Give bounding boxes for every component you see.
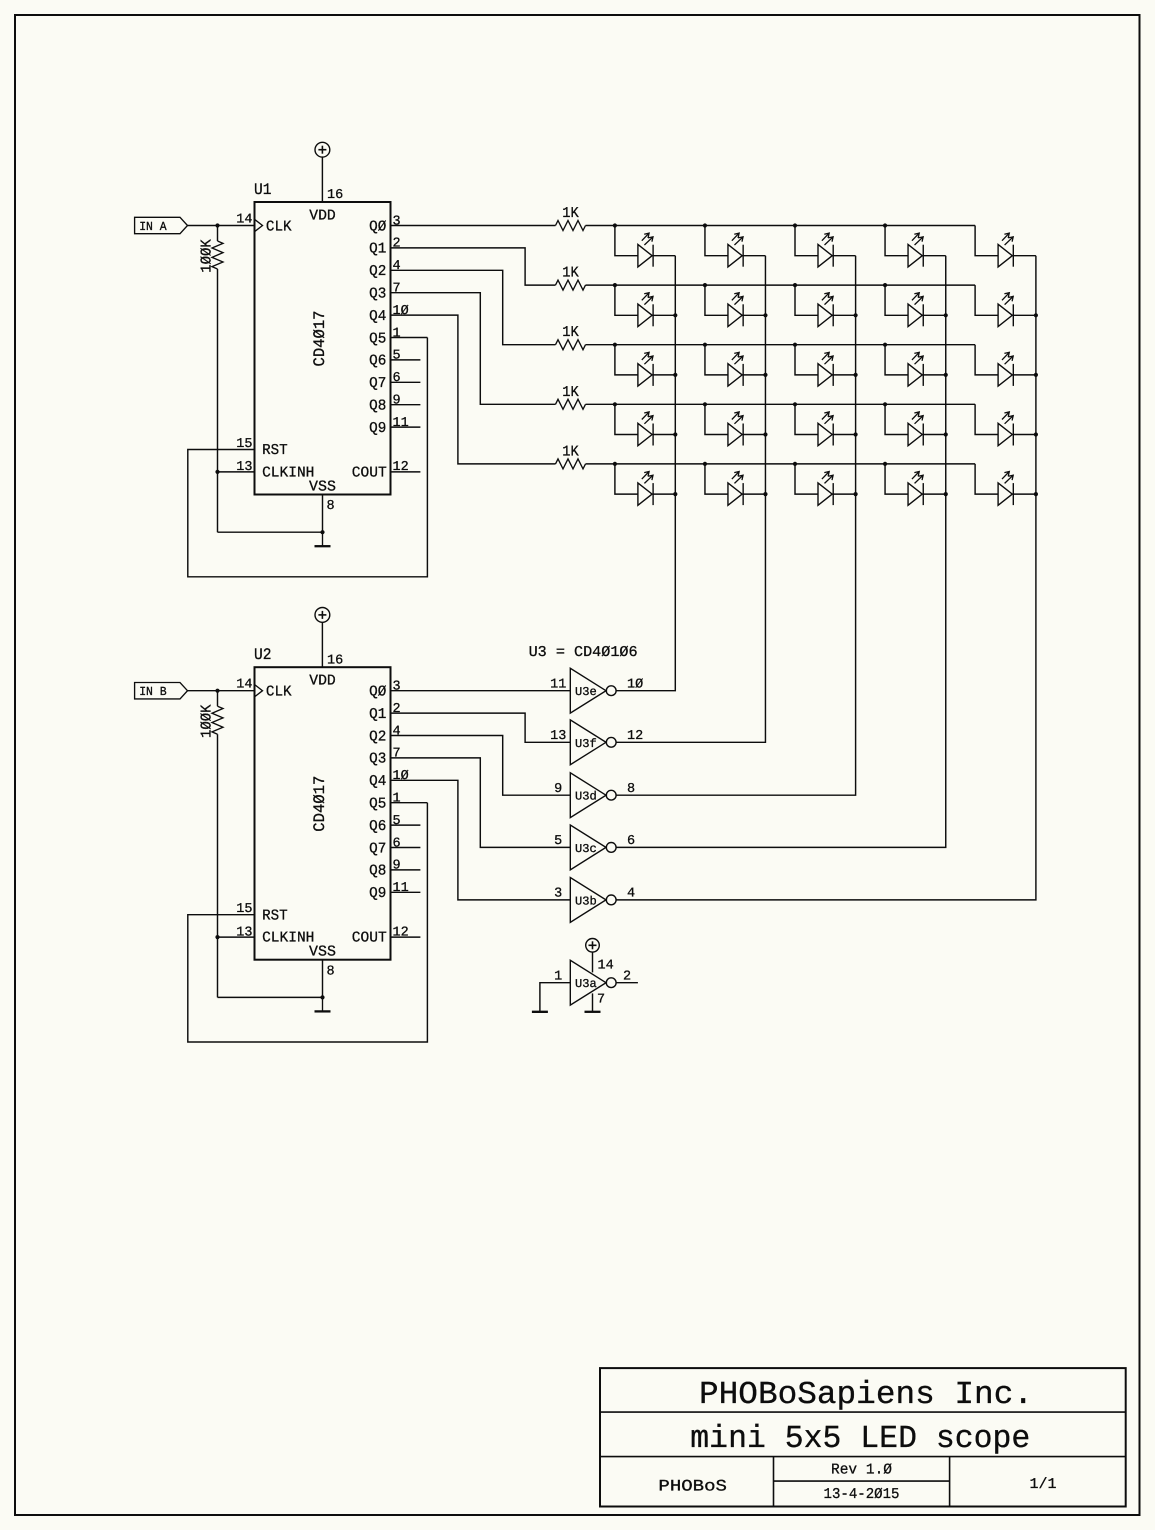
U3 pin 7 VSS wire xyxy=(593,992,606,1012)
junction cathode col 5 row 2 xyxy=(1034,313,1038,317)
wire U1 pin 4 Q2 to row 3 xyxy=(391,259,556,345)
title block xyxy=(600,1368,1126,1506)
svg-text:1Ø: 1Ø xyxy=(393,769,409,784)
wire IN B to U2 CLK pin 14 xyxy=(188,678,255,693)
svg-text:Q4: Q4 xyxy=(369,773,386,790)
junction cathode col 5 row 3 xyxy=(1034,373,1038,377)
svg-text:Q2: Q2 xyxy=(369,728,386,745)
svg-text:Q7: Q7 xyxy=(369,840,386,857)
svg-text:CLK: CLK xyxy=(266,684,292,701)
LED R5C2 xyxy=(728,472,743,506)
wire LED R1C2 anode xyxy=(705,226,728,256)
ground symbol U3a input xyxy=(532,1011,548,1013)
svg-text:6: 6 xyxy=(393,371,401,386)
wire LED R3C1 anode xyxy=(615,345,638,375)
svg-text:CLKINH: CLKINH xyxy=(262,930,314,947)
LED R2C5 xyxy=(998,293,1013,327)
svg-text:Q9: Q9 xyxy=(369,885,386,902)
wire cathode column 2 to U3 output xyxy=(616,256,765,743)
junction row 2 col 2 anode xyxy=(703,283,707,287)
svg-text:16: 16 xyxy=(327,653,343,668)
U2 pin 12 COUT stub xyxy=(391,925,421,940)
inverter U3a (CD40106 spare) xyxy=(570,960,616,1005)
wire LED R3C2 anode xyxy=(705,345,728,375)
junction cathode col 5 row 4 xyxy=(1034,432,1038,436)
svg-text:Q1: Q1 xyxy=(369,706,386,723)
LED R5C3 xyxy=(818,472,833,506)
wire LED R3C2 cathode xyxy=(743,374,765,376)
svg-text:1/1: 1/1 xyxy=(1030,1476,1057,1493)
junction row 5 col 3 anode xyxy=(793,462,797,466)
wire U2 pin 3 Q0 to U3e xyxy=(391,680,571,695)
wire LED R3C4 anode xyxy=(885,345,908,375)
wire IN A to U1 CLK pin 14 xyxy=(188,212,255,227)
svg-text:14: 14 xyxy=(598,959,614,974)
svg-text:PHOBoS: PHOBoS xyxy=(658,1477,727,1495)
wire U2 pin 2 Q1 to U3f xyxy=(391,702,571,742)
svg-text:6: 6 xyxy=(393,836,401,851)
wire LED R5C4 cathode xyxy=(923,493,946,495)
wire LED R4C2 anode xyxy=(705,404,728,434)
junction CLKINH tap xyxy=(215,470,219,474)
wire LED R1C4 cathode xyxy=(923,255,946,257)
svg-text:2: 2 xyxy=(393,237,401,252)
resistor 1K row 3 xyxy=(556,324,586,350)
wire LED R4C4 cathode xyxy=(923,434,946,436)
U2 pin 15 RST wire xyxy=(188,803,428,1042)
junction VSS/ground xyxy=(320,995,324,999)
wire LED R1C5 anode xyxy=(975,226,998,256)
svg-text:mini 5x5 LED scope: mini 5x5 LED scope xyxy=(690,1420,1030,1457)
wire LED R3C4 cathode xyxy=(923,374,946,376)
inverter U3e (CD40106) xyxy=(550,668,643,713)
LED R4C5 xyxy=(998,412,1013,446)
svg-text:2: 2 xyxy=(623,969,631,984)
svg-text:16: 16 xyxy=(327,188,343,203)
svg-text:U3 = CD4Ø1Ø6: U3 = CD4Ø1Ø6 xyxy=(529,644,638,661)
junction cathode col 4 row 5 xyxy=(944,492,948,496)
wire LED R2C2 anode xyxy=(705,285,728,315)
svg-text:1K: 1K xyxy=(562,384,579,401)
svg-text:1K: 1K xyxy=(562,324,579,341)
svg-text:15: 15 xyxy=(236,902,252,917)
junction VSS/ground xyxy=(320,530,324,534)
U2 pin 13 CLKINH wire xyxy=(218,925,255,940)
power +V symbol U2 VDD xyxy=(315,608,330,623)
LED R4C3 xyxy=(818,412,833,446)
wire 100K to CLKINH/ground xyxy=(217,734,219,997)
svg-text:U3e: U3e xyxy=(575,685,597,699)
IC U1 CD4017 xyxy=(254,181,391,495)
junction cathode col 4 row 3 xyxy=(944,373,948,377)
inverter U3c (CD40106) xyxy=(554,825,635,870)
svg-text:12: 12 xyxy=(393,460,409,475)
svg-text:7: 7 xyxy=(393,747,401,762)
wire LED R1C3 anode xyxy=(795,226,818,256)
U1 pin 6 Q7 stub xyxy=(391,371,421,386)
svg-text:RST: RST xyxy=(262,907,288,924)
svg-text:14: 14 xyxy=(236,678,252,693)
junction row 4 col 1 anode xyxy=(613,402,617,406)
junction CLKINH tap xyxy=(215,935,219,939)
svg-text:5: 5 xyxy=(554,834,562,849)
junction cathode col 5 row 5 xyxy=(1034,492,1038,496)
svg-text:Q8: Q8 xyxy=(369,398,386,415)
svg-text:4: 4 xyxy=(393,724,401,739)
LED R1C2 xyxy=(728,233,743,267)
svg-text:Q4: Q4 xyxy=(369,308,386,325)
svg-text:PHOBoSapiens Inc.: PHOBoSapiens Inc. xyxy=(699,1376,1033,1413)
label U3 = CD40106 xyxy=(529,644,638,661)
LED R4C4 xyxy=(908,412,923,446)
resistor 1K row 4 xyxy=(556,384,586,410)
junction row 4 col 3 anode xyxy=(793,402,797,406)
svg-text:U1: U1 xyxy=(254,181,272,199)
svg-text:1K: 1K xyxy=(562,443,579,460)
svg-text:Q3: Q3 xyxy=(369,751,386,768)
svg-text:1: 1 xyxy=(393,792,401,807)
wire LED R1C2 cathode xyxy=(743,255,765,257)
wire LED R4C5 cathode xyxy=(1013,434,1036,436)
inverter U3b (CD40106) xyxy=(554,878,635,923)
resistor 1K row 5 xyxy=(556,443,586,469)
svg-text:QØ: QØ xyxy=(369,218,386,235)
wire LED R1C4 anode xyxy=(885,226,908,256)
junction row 3 col 4 anode xyxy=(883,343,887,347)
U2 pin 6 Q7 stub xyxy=(391,836,421,851)
svg-text:1K: 1K xyxy=(562,265,579,282)
svg-text:13: 13 xyxy=(236,460,252,475)
LED R4C1 xyxy=(638,412,653,446)
junction cathode col 2 row 2 xyxy=(763,313,767,317)
wire U1 pin 7 Q3 to row 4 xyxy=(391,282,556,405)
junction row 1 col 1 anode xyxy=(613,223,617,227)
svg-text:U3f: U3f xyxy=(575,737,597,751)
wire LED R3C3 anode xyxy=(795,345,818,375)
svg-text:8: 8 xyxy=(627,782,635,797)
ground symbol U1 VSS xyxy=(315,532,331,546)
svg-text:Q3: Q3 xyxy=(369,286,386,303)
junction cathode col 1 row 5 xyxy=(673,492,677,496)
svg-text:9: 9 xyxy=(393,859,401,874)
U2 pin 16 VDD wire xyxy=(322,623,343,669)
wire LED R5C2 anode xyxy=(705,464,728,494)
power +V symbol U1 VDD xyxy=(315,142,330,157)
svg-text:CD4Ø17: CD4Ø17 xyxy=(311,776,329,832)
junction row 1 col 2 anode xyxy=(703,223,707,227)
wire LED R4C2 cathode xyxy=(743,434,765,436)
wire U1 pin 10 Q4 to row 5 xyxy=(391,304,556,464)
junction row 2 col 3 anode xyxy=(793,283,797,287)
junction IN B/100K xyxy=(215,689,219,693)
wire cathode column 5 to U3 output xyxy=(616,256,1036,900)
svg-text:U2: U2 xyxy=(254,646,272,664)
svg-text:1ØØK: 1ØØK xyxy=(198,704,215,738)
wire LED R2C1 cathode xyxy=(653,314,675,316)
wire LED R1C1 anode xyxy=(615,226,638,256)
U1 pin 12 COUT stub xyxy=(391,460,421,475)
svg-text:QØ: QØ xyxy=(369,684,386,701)
svg-text:VDD: VDD xyxy=(309,208,336,225)
wire 100K to CLKINH/ground xyxy=(217,269,219,532)
svg-text:1: 1 xyxy=(393,326,401,341)
wire LED R2C2 cathode xyxy=(743,314,765,316)
U3a pin 2 output stub xyxy=(616,969,638,984)
LED R3C2 xyxy=(728,352,743,386)
svg-text:13: 13 xyxy=(550,729,566,744)
svg-text:COUT: COUT xyxy=(352,465,387,482)
svg-text:6: 6 xyxy=(627,834,635,849)
wire cathode column 3 to U3 output xyxy=(616,256,856,796)
resistor 100K (U2 clock pulldown) xyxy=(198,691,223,738)
junction row 4 col 4 anode xyxy=(883,402,887,406)
U1 pin 9 Q8 stub xyxy=(391,394,421,409)
svg-text:U3c: U3c xyxy=(575,842,597,856)
junction row 5 col 2 anode xyxy=(703,462,707,466)
svg-text:3: 3 xyxy=(554,887,562,902)
wire LED R1C3 cathode xyxy=(833,255,855,257)
LED R4C2 xyxy=(728,412,743,446)
junction cathode col 4 row 2 xyxy=(944,313,948,317)
wire LED R4C3 cathode xyxy=(833,434,855,436)
svg-text:14: 14 xyxy=(236,212,252,227)
svg-text:4: 4 xyxy=(393,259,401,274)
svg-text:8: 8 xyxy=(327,499,335,514)
wire LED R3C5 anode xyxy=(975,345,998,375)
svg-text:9: 9 xyxy=(554,782,562,797)
wire LED R4C1 anode xyxy=(615,404,638,434)
wire LED R4C4 anode xyxy=(885,404,908,434)
wire cathode column 4 to U3 output xyxy=(616,256,946,848)
LED R5C1 xyxy=(638,472,653,506)
wire LED R5C5 anode xyxy=(975,464,998,494)
LED R2C2 xyxy=(728,293,743,327)
wire LED R2C5 cathode xyxy=(1013,314,1036,316)
U2 pin 8 VSS wire xyxy=(323,960,335,998)
junction cathode col 2 row 3 xyxy=(763,373,767,377)
U2 pin 9 Q8 stub xyxy=(391,859,421,874)
U1 pin 1 Q5 wire xyxy=(391,326,428,341)
svg-text:COUT: COUT xyxy=(352,930,387,947)
junction row 1 col 4 anode xyxy=(883,223,887,227)
wire row 1 bus xyxy=(586,225,976,227)
svg-text:13: 13 xyxy=(236,925,252,940)
LED R3C4 xyxy=(908,352,923,386)
U1 pin 11 Q9 stub xyxy=(391,416,421,431)
svg-text:Q7: Q7 xyxy=(369,375,386,392)
wire U1 pin 3 Q0 to row 1 xyxy=(391,214,556,229)
junction cathode col 3 row 3 xyxy=(854,373,858,377)
svg-text:RST: RST xyxy=(262,442,288,459)
U1 pin 16 VDD wire xyxy=(322,157,343,203)
wire row 5 bus xyxy=(586,463,976,465)
svg-text:1Ø: 1Ø xyxy=(393,304,409,319)
svg-text:1: 1 xyxy=(554,969,562,984)
svg-text:Q9: Q9 xyxy=(369,420,386,437)
LED R3C3 xyxy=(818,352,833,386)
wire U1 pin 2 Q1 to row 2 xyxy=(391,237,556,285)
wire LED R4C1 cathode xyxy=(653,434,675,436)
svg-text:Q8: Q8 xyxy=(369,863,386,880)
LED R1C1 xyxy=(638,233,653,267)
IC U2 CD4017 xyxy=(254,646,391,960)
LED R3C1 xyxy=(638,352,653,386)
U2 pin 5 Q6 stub xyxy=(391,814,421,829)
wire LED R4C5 anode xyxy=(975,404,998,434)
LED R5C5 xyxy=(998,472,1013,506)
wire row 2 bus xyxy=(586,284,976,286)
wire row 3 bus xyxy=(586,344,976,346)
svg-text:11: 11 xyxy=(393,881,409,896)
wire LED R5C3 anode xyxy=(795,464,818,494)
svg-text:Rev 1.Ø: Rev 1.Ø xyxy=(831,1462,892,1479)
LED R2C1 xyxy=(638,293,653,327)
inverter U3f (CD40106) xyxy=(550,720,643,765)
svg-text:IN A: IN A xyxy=(139,220,167,234)
LED R2C4 xyxy=(908,293,923,327)
svg-text:7: 7 xyxy=(393,282,401,297)
wire LED R5C1 cathode xyxy=(653,493,675,495)
LED R3C5 xyxy=(998,352,1013,386)
svg-text:Q5: Q5 xyxy=(369,796,386,813)
wire cathode column 1 to U3 output xyxy=(616,256,675,691)
svg-text:5: 5 xyxy=(393,349,401,364)
resistor 1K row 2 xyxy=(556,265,586,291)
junction cathode col 1 row 4 xyxy=(673,432,677,436)
junction cathode col 2 row 5 xyxy=(763,492,767,496)
wire LED R3C1 cathode xyxy=(653,374,675,376)
svg-text:U3d: U3d xyxy=(575,790,597,804)
svg-text:1K: 1K xyxy=(562,205,579,222)
svg-text:15: 15 xyxy=(236,437,252,452)
svg-text:CLKINH: CLKINH xyxy=(262,465,314,482)
wire LED R1C1 cathode xyxy=(653,255,675,257)
svg-text:Q5: Q5 xyxy=(369,330,386,347)
wire row 4 bus xyxy=(586,403,976,405)
svg-text:3: 3 xyxy=(393,680,401,695)
svg-text:Q6: Q6 xyxy=(369,818,386,835)
wire LED R2C3 anode xyxy=(795,285,818,315)
U2 pin 1 Q5 wire xyxy=(391,792,428,807)
junction cathode col 4 row 4 xyxy=(944,432,948,436)
junction cathode col 3 row 4 xyxy=(854,432,858,436)
svg-text:5: 5 xyxy=(393,814,401,829)
wire LED R5C1 anode xyxy=(615,464,638,494)
power +V symbol U3 pin 14 xyxy=(586,939,600,953)
wire CLKINH net to VSS xyxy=(218,531,323,533)
ground symbol U2 VSS xyxy=(315,997,331,1011)
LED R2C3 xyxy=(818,293,833,327)
resistor 1K row 1 xyxy=(556,205,586,231)
inverter U3d (CD40106) xyxy=(554,773,635,818)
svg-text:2: 2 xyxy=(393,702,401,717)
svg-text:CLK: CLK xyxy=(266,219,292,236)
junction row 5 col 4 anode xyxy=(883,462,887,466)
LED R1C3 xyxy=(818,233,833,267)
wire LED R2C4 cathode xyxy=(923,314,946,316)
svg-text:IN B: IN B xyxy=(139,685,167,699)
junction cathode col 1 row 3 xyxy=(673,373,677,377)
wire LED R1C5 cathode xyxy=(1013,255,1036,257)
junction row 5 col 1 anode xyxy=(613,462,617,466)
LED R1C5 xyxy=(998,233,1013,267)
svg-text:3: 3 xyxy=(393,214,401,229)
junction row 3 col 2 anode xyxy=(703,343,707,347)
svg-text:Q6: Q6 xyxy=(369,353,386,370)
wire LED R4C3 anode xyxy=(795,404,818,434)
svg-text:U3a: U3a xyxy=(575,977,597,991)
ground symbol U3 VSS xyxy=(585,1011,601,1013)
wire LED R5C3 cathode xyxy=(833,493,855,495)
input flag IN A xyxy=(135,217,188,234)
U1 pin 15 RST wire xyxy=(188,338,428,577)
svg-text:4: 4 xyxy=(627,887,635,902)
svg-text:12: 12 xyxy=(393,925,409,940)
LED R1C4 xyxy=(908,233,923,267)
svg-text:CD4Ø17: CD4Ø17 xyxy=(311,311,329,367)
svg-text:1Ø: 1Ø xyxy=(627,677,643,692)
wire LED R5C5 cathode xyxy=(1013,493,1036,495)
junction row 2 col 4 anode xyxy=(883,283,887,287)
junction cathode col 2 row 4 xyxy=(763,432,767,436)
wire U2 pin 10 Q4 to U3b xyxy=(391,769,571,900)
wire LED R2C3 cathode xyxy=(833,314,855,316)
wire LED R5C4 anode xyxy=(885,464,908,494)
junction cathode col 3 row 2 xyxy=(854,313,858,317)
U1 pin 5 Q6 stub xyxy=(391,349,421,364)
U1 pin 8 VSS wire xyxy=(323,495,335,533)
wire LED R2C4 anode xyxy=(885,285,908,315)
U3a pin 1 input wire xyxy=(540,969,570,1012)
wire CLKINH net to VSS xyxy=(218,996,323,998)
wire LED R3C5 cathode xyxy=(1013,374,1036,376)
svg-text:Q2: Q2 xyxy=(369,263,386,280)
svg-text:11: 11 xyxy=(550,677,566,692)
svg-text:13-4-2Ø15: 13-4-2Ø15 xyxy=(824,1486,900,1503)
input flag IN B xyxy=(135,683,188,700)
resistor 100K (U1 clock pulldown) xyxy=(198,226,223,273)
svg-text:U3b: U3b xyxy=(575,894,597,908)
junction row 4 col 2 anode xyxy=(703,402,707,406)
wire LED R3C3 cathode xyxy=(833,374,855,376)
svg-text:1ØØK: 1ØØK xyxy=(198,239,215,273)
U1 pin 13 CLKINH wire xyxy=(218,460,255,475)
svg-text:12: 12 xyxy=(627,729,643,744)
junction row 2 col 1 anode xyxy=(613,283,617,287)
U2 pin 11 Q9 stub xyxy=(391,881,421,896)
svg-text:11: 11 xyxy=(393,416,409,431)
svg-text:8: 8 xyxy=(327,964,335,979)
wire U2 pin 4 Q2 to U3d xyxy=(391,724,571,795)
junction cathode col 1 row 2 xyxy=(673,313,677,317)
svg-text:9: 9 xyxy=(393,394,401,409)
junction row 3 col 1 anode xyxy=(613,343,617,347)
wire U2 pin 7 Q3 to U3c xyxy=(391,747,571,848)
svg-text:Q1: Q1 xyxy=(369,241,386,258)
wire LED R5C2 cathode xyxy=(743,493,765,495)
wire LED R2C1 anode xyxy=(615,285,638,315)
U3 pin 14 VDD wire xyxy=(593,952,614,973)
wire LED R2C5 anode xyxy=(975,285,998,315)
LED R5C4 xyxy=(908,472,923,506)
junction row 1 col 3 anode xyxy=(793,223,797,227)
svg-text:VDD: VDD xyxy=(309,673,336,690)
junction cathode col 3 row 5 xyxy=(854,492,858,496)
junction IN A/100K xyxy=(215,223,219,227)
junction row 3 col 3 anode xyxy=(793,343,797,347)
svg-text:7: 7 xyxy=(597,992,605,1007)
